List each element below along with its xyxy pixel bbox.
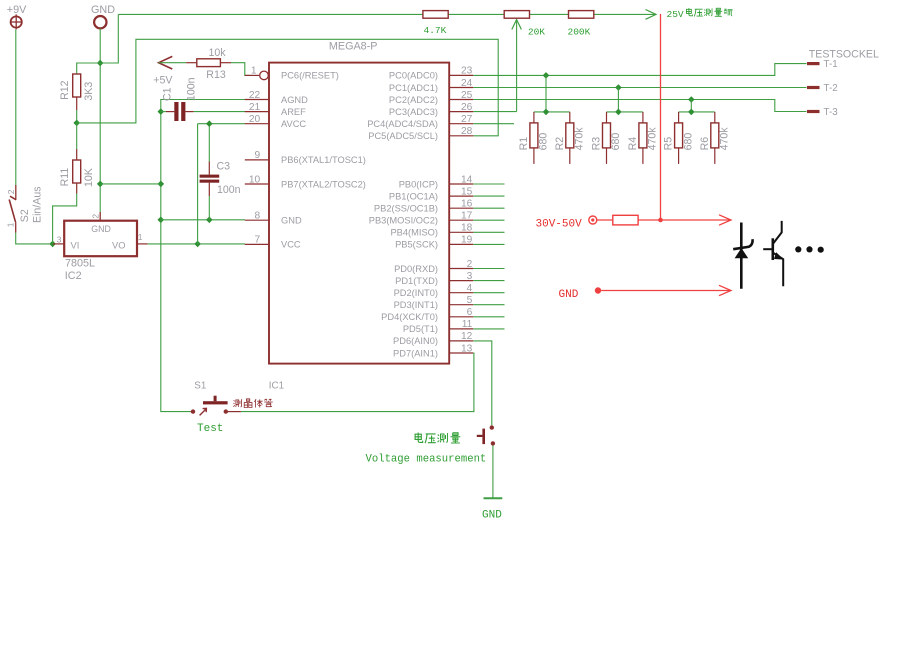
test socket pad T-3 bbox=[807, 110, 820, 113]
junction GND / R12-top bbox=[97, 60, 104, 67]
wire top connector R5/R6 bbox=[679, 111, 715, 113]
wire C1 left to GND bbox=[161, 111, 166, 113]
wire PC1 to T-2 bbox=[473, 87, 806, 89]
wire dangling pin row bbox=[473, 219, 504, 221]
IC1 pin 8 stub bbox=[245, 219, 269, 221]
junction R1/R2 top bbox=[543, 109, 550, 116]
arrow GND line bbox=[719, 285, 731, 295]
resistor R13 bbox=[186, 59, 231, 67]
resistor R3 bbox=[603, 112, 611, 164]
svg-text:VO: VO bbox=[112, 240, 125, 250]
svg-text:25: 25 bbox=[461, 90, 473, 101]
resistor R5 bbox=[675, 112, 683, 164]
svg-text:3: 3 bbox=[57, 235, 62, 245]
svg-text:26: 26 bbox=[461, 102, 473, 113]
wire PC0 down to R1/R2 bbox=[545, 75, 547, 112]
wire 30V-50V to series resistor bbox=[597, 219, 613, 221]
wire dangling pin row bbox=[473, 316, 504, 318]
svg-text:GND: GND bbox=[559, 289, 579, 301]
lead to 7805 VI bbox=[53, 243, 65, 245]
wire PC4 stub bbox=[473, 123, 514, 125]
IC1 pin 25 stub bbox=[449, 99, 473, 101]
S1 label 测晶体管 bbox=[233, 399, 241, 407]
red link 25V rail to 30V-50V node bbox=[660, 14, 662, 220]
wire C1 right to AREF bbox=[194, 111, 245, 113]
wire dangling pin row bbox=[473, 183, 504, 185]
wire PC1 down to R3/R4 bbox=[617, 88, 619, 112]
IC2 VO lead bbox=[137, 243, 148, 245]
svg-text:+9V: +9V bbox=[7, 4, 27, 16]
svg-text:AVCC: AVCC bbox=[281, 119, 306, 129]
svg-text:1: 1 bbox=[6, 222, 16, 227]
GND terminal dot bbox=[595, 287, 601, 293]
svg-text:30V-50V: 30V-50V bbox=[536, 218, 583, 230]
svg-text:9: 9 bbox=[255, 150, 261, 161]
svg-text:470k: 470k bbox=[647, 127, 659, 151]
svg-text:MEGA8-P: MEGA8-P bbox=[329, 41, 378, 53]
switch S2 bbox=[9, 185, 16, 233]
IC1 pin 27 stub bbox=[449, 123, 473, 125]
IC1 pin 1 stub bbox=[245, 71, 269, 80]
junction PC1/R3R4 bbox=[615, 84, 622, 91]
wire R11 bottom to +9V switched bbox=[53, 194, 77, 244]
svg-text:10k: 10k bbox=[209, 47, 227, 59]
svg-text:TESTSOCKEL: TESTSOCKEL bbox=[809, 48, 879, 60]
svg-text:17: 17 bbox=[461, 211, 473, 222]
svg-text:R11: R11 bbox=[59, 168, 71, 187]
junction AVCC/VCC bbox=[194, 241, 201, 248]
wire VO to VCC bbox=[148, 243, 246, 245]
wire AGND down to S1 bbox=[161, 100, 245, 412]
svg-text:Voltage measurement: Voltage measurement bbox=[366, 454, 487, 466]
wire S2 to VI junction bbox=[16, 233, 50, 244]
DUT zener diode bbox=[733, 223, 752, 289]
GND symbol (bottom) bbox=[484, 497, 503, 499]
30V-50V input terminal bbox=[589, 216, 597, 224]
svg-text:2: 2 bbox=[467, 259, 473, 270]
svg-text:200K: 200K bbox=[568, 27, 591, 38]
voltage regulator IC2 7805 bbox=[64, 212, 137, 256]
wire divider node to PC5 battery sense bbox=[77, 39, 499, 136]
IC1 pin 15 stub bbox=[449, 195, 473, 197]
junction IC-GND line bbox=[158, 217, 165, 224]
junction R3/R4 top bbox=[615, 109, 622, 116]
svg-text:PC0(ADC0): PC0(ADC0) bbox=[389, 71, 438, 81]
svg-text:PD7(AIN1): PD7(AIN1) bbox=[393, 348, 438, 358]
R12 bottom lead bbox=[76, 97, 78, 110]
IC1 pin 10 stub bbox=[245, 183, 269, 185]
svg-text:18: 18 bbox=[461, 223, 473, 234]
IC1 pin 13 stub bbox=[449, 352, 473, 354]
wire IC GND (pin 8) bbox=[161, 219, 245, 221]
wire C3 top to AVCC bbox=[208, 124, 210, 162]
wire GND link bbox=[100, 183, 161, 185]
wire +9V to S2 bbox=[15, 29, 17, 185]
svg-text:3K3: 3K3 bbox=[83, 82, 95, 101]
svg-text:S1: S1 bbox=[194, 380, 206, 391]
IC1 pin 5 stub bbox=[449, 304, 473, 306]
resistor 20K bbox=[504, 11, 529, 19]
IC1 pin 22 stub bbox=[245, 99, 269, 101]
svg-text:C1: C1 bbox=[161, 87, 173, 101]
svg-text:16: 16 bbox=[461, 199, 473, 210]
svg-text:680: 680 bbox=[610, 133, 622, 151]
svg-text:PD0(RXD): PD0(RXD) bbox=[394, 264, 438, 274]
IC1 pin 9 stub bbox=[245, 159, 269, 161]
IC1 pin 11 stub bbox=[449, 328, 473, 330]
svg-text:IC2: IC2 bbox=[65, 270, 82, 282]
svg-text:20: 20 bbox=[249, 114, 261, 125]
label 电压测量 bbox=[415, 433, 423, 443]
IC1 pin 7 stub bbox=[245, 243, 269, 245]
svg-text:470k: 470k bbox=[719, 127, 731, 151]
series resistor (30V-50V) bbox=[613, 215, 638, 225]
svg-text:14: 14 bbox=[461, 174, 473, 185]
svg-text:R13: R13 bbox=[206, 69, 226, 81]
svg-text:2: 2 bbox=[90, 214, 100, 219]
svg-text:AREF: AREF bbox=[281, 107, 306, 117]
wire PD7 to S1 test line bbox=[241, 353, 474, 412]
wire AVCC vertical bbox=[197, 124, 199, 244]
arrow 25V rail end bbox=[646, 10, 657, 20]
svg-text:PB2(SS/OC1B): PB2(SS/OC1B) bbox=[374, 204, 438, 214]
svg-text:+5V: +5V bbox=[153, 75, 173, 87]
IC1 pin 14 stub bbox=[449, 183, 473, 185]
wire R12 to divider node bbox=[76, 110, 78, 123]
svg-text:Ein/Aus: Ein/Aus bbox=[32, 186, 44, 223]
svg-text:4.7K: 4.7K bbox=[424, 25, 447, 36]
svg-text:PC1(ADC1): PC1(ADC1) bbox=[389, 83, 438, 93]
svg-text:21: 21 bbox=[249, 102, 261, 113]
IC1 pin 19 stub bbox=[449, 243, 473, 245]
svg-text:680: 680 bbox=[682, 133, 694, 151]
capacitor C3 bbox=[200, 162, 220, 197]
IC1 pin 21 stub bbox=[245, 111, 269, 113]
junction AVCC/C3 bbox=[206, 120, 213, 127]
svg-text:27: 27 bbox=[461, 114, 473, 125]
svg-text:IC1: IC1 bbox=[269, 380, 284, 391]
wire GND rail to 25V divider bbox=[118, 13, 655, 15]
R11 bottom lead bbox=[76, 183, 78, 194]
DUT transistor (NPN) bbox=[763, 221, 784, 286]
svg-text:PD5(T1): PD5(T1) bbox=[403, 324, 438, 334]
svg-text:VI: VI bbox=[71, 240, 80, 250]
wire C3 bottom to GND bbox=[208, 196, 210, 220]
svg-text:GND: GND bbox=[91, 4, 115, 16]
junction GND-link left bbox=[158, 181, 165, 188]
wire GND symbol down to IC2 pin 2 bbox=[99, 28, 101, 212]
IC1 pin 28 stub bbox=[449, 135, 473, 137]
R11 top lead bbox=[76, 149, 78, 160]
svg-text:S2: S2 bbox=[19, 209, 31, 222]
svg-text:8: 8 bbox=[255, 211, 261, 222]
svg-text:12: 12 bbox=[461, 331, 473, 342]
svg-text:100n: 100n bbox=[217, 184, 241, 196]
svg-text:23: 23 bbox=[461, 66, 473, 77]
wire PD6 to voltage-measure switch bbox=[473, 341, 492, 426]
+5V supply arrow bbox=[159, 56, 173, 69]
svg-text:PC5(ADC5/SCL): PC5(ADC5/SCL) bbox=[368, 131, 438, 141]
wire dangling pin row bbox=[473, 268, 504, 270]
wire PC0 to T-1 bbox=[473, 64, 806, 76]
wire 25V tap vertical bbox=[516, 21, 518, 112]
svg-text:6: 6 bbox=[467, 307, 473, 318]
svg-text:PD6(AIN0): PD6(AIN0) bbox=[393, 336, 438, 346]
svg-text:GND: GND bbox=[482, 510, 502, 522]
svg-text:R4: R4 bbox=[627, 137, 639, 151]
resistor R12 bbox=[73, 74, 81, 97]
wire PC2 down to R5/R6 bbox=[690, 100, 692, 112]
svg-text:PB5(SCK): PB5(SCK) bbox=[395, 240, 438, 250]
svg-text:4: 4 bbox=[467, 283, 473, 294]
wire dangling pin row bbox=[473, 231, 504, 233]
svg-text:7805L: 7805L bbox=[65, 258, 95, 270]
IC1 pin 23 stub bbox=[449, 74, 473, 76]
svg-text:PD1(TXD): PD1(TXD) bbox=[395, 276, 438, 286]
svg-text:PD4(XCK/T0): PD4(XCK/T0) bbox=[381, 312, 438, 322]
IC1 pin 18 stub bbox=[449, 231, 473, 233]
junction PC2/R5R6 bbox=[688, 96, 695, 103]
svg-text:Test: Test bbox=[197, 423, 223, 435]
svg-text:R5: R5 bbox=[663, 137, 675, 151]
IC1 pin 26 stub bbox=[449, 111, 473, 113]
IC1 pin 6 stub bbox=[449, 316, 473, 318]
wire R11 top bbox=[76, 123, 78, 149]
IC1 pin 20 stub bbox=[245, 123, 269, 125]
svg-text:15: 15 bbox=[461, 186, 473, 197]
svg-text:T-2: T-2 bbox=[824, 83, 838, 94]
wire dangling pin row bbox=[473, 280, 504, 282]
junction PC0/R1R2 bbox=[543, 72, 550, 79]
svg-text:PB0(ICP): PB0(ICP) bbox=[399, 179, 438, 189]
svg-text:11: 11 bbox=[462, 319, 473, 330]
wire +5V to R13 bbox=[159, 62, 187, 64]
wire GND to DUT cathode bbox=[601, 290, 729, 292]
svg-text:13: 13 bbox=[461, 343, 473, 354]
svg-text:C3: C3 bbox=[217, 161, 231, 173]
test socket pad T-1 bbox=[807, 62, 820, 65]
svg-text:24: 24 bbox=[461, 78, 473, 89]
junction R12/R11/PC5 bbox=[73, 120, 80, 127]
wire series resistor to DUT anode bbox=[638, 219, 729, 221]
junction C1/GND bbox=[158, 108, 165, 115]
svg-text:PB6(XTAL1/TOSC1): PB6(XTAL1/TOSC1) bbox=[281, 155, 366, 165]
svg-text:470k: 470k bbox=[574, 127, 586, 151]
svg-text:R6: R6 bbox=[699, 137, 711, 151]
junction GND / AGND link bbox=[97, 181, 104, 188]
arrow 30V-50V line bbox=[719, 215, 731, 225]
junction 30V-50V/25V link bbox=[658, 218, 663, 223]
svg-text:22: 22 bbox=[249, 90, 261, 101]
wire dangling pin row bbox=[473, 195, 504, 197]
wire top connector R1/R2 bbox=[534, 111, 570, 113]
wire switch to GND bbox=[492, 446, 494, 498]
IC1 pin 12 stub bbox=[449, 340, 473, 342]
DUT ellipsis dots bbox=[795, 246, 824, 253]
wire dangling pin row bbox=[473, 304, 504, 306]
svg-text:T-1: T-1 bbox=[824, 59, 838, 70]
IC1 pin 17 stub bbox=[449, 219, 473, 221]
resistor 4.7K bbox=[423, 11, 448, 19]
svg-text:10K: 10K bbox=[83, 168, 95, 187]
test socket pad T-2 bbox=[807, 86, 820, 89]
svg-text:PC6(/RESET): PC6(/RESET) bbox=[281, 71, 339, 81]
wire dangling pin row bbox=[473, 207, 504, 209]
capacitor C1 bbox=[166, 102, 194, 121]
resistor R2 bbox=[566, 112, 574, 164]
svg-text:PB1(OC1A): PB1(OC1A) bbox=[389, 191, 438, 201]
IC1 pin 24 stub bbox=[449, 87, 473, 89]
arrow 25V tap bbox=[512, 20, 522, 30]
svg-text:19: 19 bbox=[461, 235, 473, 246]
wire top connector R3/R4 bbox=[607, 111, 643, 113]
resistor R6 bbox=[711, 112, 719, 164]
junction C3/GND bbox=[206, 217, 213, 224]
svg-text:20K: 20K bbox=[528, 27, 545, 38]
svg-text:AGND: AGND bbox=[281, 95, 308, 105]
svg-text:7: 7 bbox=[255, 235, 261, 246]
wire R13 to RESET bbox=[231, 63, 250, 76]
wire dangling pin row bbox=[473, 292, 504, 294]
svg-text:R2: R2 bbox=[554, 137, 566, 151]
svg-text:PB7(XTAL2/TOSC2): PB7(XTAL2/TOSC2) bbox=[281, 179, 366, 189]
svg-text:5: 5 bbox=[467, 295, 473, 306]
svg-text:PD2(INT0): PD2(INT0) bbox=[394, 288, 438, 298]
wire dangling pin row bbox=[473, 243, 504, 245]
svg-text:1: 1 bbox=[251, 66, 257, 77]
svg-text:GND: GND bbox=[281, 216, 302, 226]
svg-text:T-3: T-3 bbox=[824, 107, 839, 118]
IC1 pin 4 stub bbox=[449, 292, 473, 294]
svg-text:PD3(INT1): PD3(INT1) bbox=[394, 300, 438, 310]
switch S1 (test button) bbox=[191, 396, 241, 416]
resistor R4 bbox=[639, 112, 647, 164]
svg-text:GND: GND bbox=[91, 224, 111, 234]
wire AVCC pin 20 horizontal bbox=[198, 123, 245, 125]
svg-text:PC4(ADC4/SDA): PC4(ADC4/SDA) bbox=[367, 119, 438, 129]
resistor 200K bbox=[569, 11, 594, 19]
svg-text:R12: R12 bbox=[59, 80, 71, 100]
svg-text:R3: R3 bbox=[591, 137, 603, 151]
label 25V电压测量端 bbox=[667, 8, 733, 20]
junction R5/R6 top bbox=[688, 109, 695, 116]
switch voltage-measure bbox=[477, 425, 495, 445]
IC1 pin 16 stub bbox=[449, 207, 473, 209]
svg-text:VCC: VCC bbox=[281, 240, 301, 250]
svg-text:25V: 25V bbox=[667, 9, 684, 20]
IC1 pin 3 stub bbox=[449, 280, 473, 282]
svg-text:1: 1 bbox=[138, 232, 143, 242]
svg-text:2: 2 bbox=[6, 189, 16, 194]
resistor R11 bbox=[73, 160, 81, 183]
svg-text:680: 680 bbox=[538, 133, 550, 151]
wire PC2 to T-3 bbox=[473, 100, 806, 112]
wire PC3 to 25V divider tap bbox=[473, 111, 516, 113]
svg-text:PB4(MISO): PB4(MISO) bbox=[390, 228, 438, 238]
resistor R1 bbox=[530, 112, 538, 164]
svg-text:10: 10 bbox=[249, 174, 261, 185]
microcontroller IC1 MEGA8-P body bbox=[269, 63, 449, 364]
wire R12 top to GND rail bbox=[77, 14, 119, 74]
svg-text:3: 3 bbox=[467, 271, 473, 282]
+9V supply terminal bbox=[10, 14, 22, 29]
svg-text:R1: R1 bbox=[518, 137, 530, 151]
svg-text:PC3(ADC3): PC3(ADC3) bbox=[389, 107, 438, 117]
svg-text:28: 28 bbox=[461, 126, 473, 137]
wire dangling pin row bbox=[473, 328, 504, 330]
junction S2/R11/VI node bbox=[49, 241, 56, 248]
svg-text:PC2(ADC2): PC2(ADC2) bbox=[389, 95, 438, 105]
svg-text:100n: 100n bbox=[186, 77, 198, 101]
IC1 pin 2 stub bbox=[449, 268, 473, 270]
svg-text:PB3(MOSI/OC2): PB3(MOSI/OC2) bbox=[369, 216, 438, 226]
GND supply terminal (top) bbox=[94, 16, 106, 28]
